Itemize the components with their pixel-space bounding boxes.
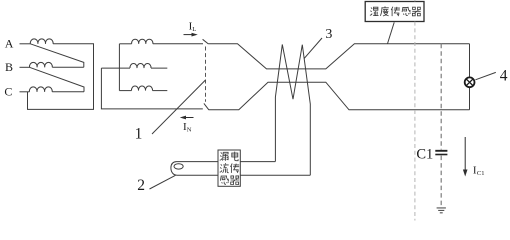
svg-text:B: B xyxy=(5,60,13,74)
svg-text:L: L xyxy=(192,26,196,33)
svg-text:C: C xyxy=(4,85,12,99)
svg-text:A: A xyxy=(5,36,14,50)
svg-text:1: 1 xyxy=(135,126,143,143)
svg-text:4: 4 xyxy=(500,68,508,85)
svg-text:C1: C1 xyxy=(416,146,433,162)
svg-text:2: 2 xyxy=(137,177,145,194)
svg-text:3: 3 xyxy=(325,27,332,42)
svg-text:N: N xyxy=(187,127,192,134)
svg-text:C1: C1 xyxy=(477,170,485,177)
